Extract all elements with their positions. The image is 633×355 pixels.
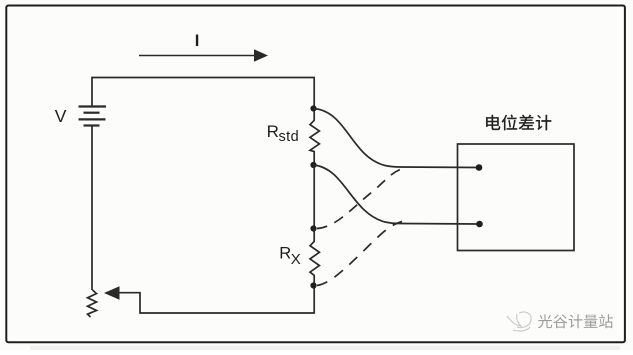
svg-text:R: R [267, 122, 279, 141]
wire bottom [117, 286, 314, 314]
wire node2 to potentiometer lower terminal [314, 165, 480, 224]
terminal upper [476, 164, 483, 171]
wire node1 to potentiometer upper terminal [314, 109, 480, 168]
node bottom of Rstd [310, 162, 316, 168]
label potentiometer (dian wei cha ji) [486, 114, 551, 130]
terminal lower [476, 221, 483, 228]
dashed wire node3 to upper terminal [317, 169, 403, 229]
svg-text:std: std [279, 129, 300, 145]
svg-text:V: V [55, 106, 67, 126]
node top of Rstd [310, 105, 316, 111]
wire Rstd to Rx [313, 165, 315, 229]
watermark guanggu jiliang zhan [538, 314, 613, 328]
current arrow I [139, 55, 256, 57]
wire battery to rheostat [91, 126, 93, 291]
resistor Rstd [310, 109, 319, 166]
svg-text:R: R [279, 245, 291, 263]
battery V [79, 107, 107, 126]
node top of Rx [310, 225, 316, 231]
node bottom of Rx [310, 282, 316, 288]
rheostat (variable resistor) [88, 290, 97, 317]
wiper arrow [104, 286, 120, 299]
dashed wire node4 to lower terminal [317, 222, 402, 286]
svg-text:X: X [291, 251, 301, 268]
resistor Rx [310, 229, 319, 286]
watermark logo [507, 312, 531, 331]
wire top [92, 78, 314, 109]
potentiometer box U1 [458, 144, 575, 251]
svg-text:I: I [195, 32, 200, 50]
